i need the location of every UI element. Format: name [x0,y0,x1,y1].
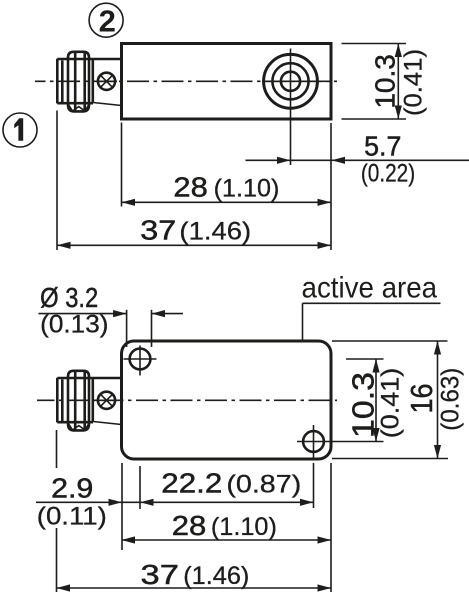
svg-text:(1.46): (1.46) [179,218,251,246]
svg-text:(0.11): (0.11) [37,503,107,531]
svg-text:5.7: 5.7 [364,130,401,161]
svg-text:(0.41): (0.41) [377,368,405,439]
svg-text:(1.10): (1.10) [211,513,277,541]
svg-text:(0.41): (0.41) [400,49,428,116]
svg-text:Ø 3.2: Ø 3.2 [40,282,98,313]
svg-text:37: 37 [140,215,176,246]
svg-text:37: 37 [141,559,179,590]
svg-text:(0.87): (0.87) [226,470,301,498]
svg-text:active area: active area [302,272,438,305]
svg-text:(0.22): (0.22) [361,160,415,188]
svg-text:10.3: 10.3 [369,54,400,109]
svg-text:16: 16 [404,384,439,414]
svg-text:10.3: 10.3 [346,372,381,438]
svg-text:(1.10): (1.10) [214,174,280,202]
svg-text:22.2: 22.2 [161,467,222,498]
svg-text:(0.13): (0.13) [40,311,108,339]
svg-text:2.9: 2.9 [51,473,93,504]
svg-text:28: 28 [172,510,207,541]
svg-text:2: 2 [99,4,116,39]
svg-text:(1.46): (1.46) [183,562,249,590]
svg-text:28: 28 [173,171,207,202]
svg-text:(0.63): (0.63) [437,368,465,431]
